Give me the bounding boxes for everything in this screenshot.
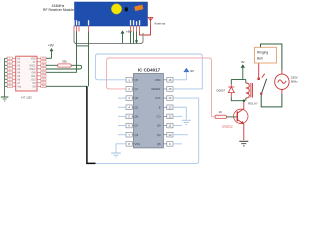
U2 pin numbers: [9, 58, 44, 88]
power +9V arrow (relay supply): [241, 60, 245, 80]
svg-text:15: 15: [168, 87, 172, 91]
RX1 pins (red stubs): [74, 26, 140, 32]
svg-text:10: 10: [168, 133, 172, 137]
wire bell top to AC source (dark green): [261, 44, 282, 70]
wire diode bottom to collector junction (green): [231, 97, 246, 101]
wire R1 to OSC2 loop (green): [46, 65, 82, 69]
svg-text:Q0: Q0: [135, 96, 139, 100]
U2 label HT 12D: [21, 95, 32, 99]
power +9V arrow (module rail): [121, 30, 133, 44]
svg-text:14: 14: [42, 72, 44, 74]
wire RX1 data pins tie (green): [77, 45, 89, 47]
wire R2 to base (green): [227, 116, 238, 118]
wire U1 Q5 to RESET loop (light blue): [95, 54, 202, 89]
svg-text:16: 16: [168, 78, 172, 82]
relay RL1 coil: [246, 83, 253, 98]
wire antenna to RX1 ANT pin (red): [140, 23, 151, 35]
counter U1 CD4017 title: [138, 68, 161, 73]
RL1 fixed contact stub (red): [262, 74, 265, 78]
U1 left pin boxes 1-8: [126, 78, 134, 147]
svg-text:9V: 9V: [241, 60, 245, 64]
svg-text:Q6: Q6: [135, 115, 139, 119]
svg-text:Q7: Q7: [135, 124, 139, 128]
svg-text:13: 13: [168, 105, 172, 109]
U1 body: [134, 74, 164, 148]
svg-text:VSS: VSS: [135, 142, 141, 146]
svg-text:3: 3: [9, 65, 10, 67]
U1 unconnected stubs (light blue): [118, 98, 188, 144]
svg-text:14: 14: [168, 96, 172, 100]
U2 pin name labels: [17, 57, 36, 88]
svg-text:4: 4: [9, 69, 10, 71]
svg-text:17: 17: [42, 62, 44, 64]
U1 pin name labels: [135, 78, 161, 146]
svg-text:18: 18: [42, 58, 44, 60]
svg-text:11: 11: [168, 124, 171, 128]
resistor R1 oscillator 33k: [46, 60, 71, 68]
wire U1 E pin to ground (light blue): [173, 107, 186, 120]
diode D1 1N4007 (flyback): [228, 84, 234, 97]
ground (U1 VSS): [111, 153, 121, 157]
svg-text:D11: D11: [32, 76, 37, 78]
wire RX1 right pins to rail (green): [131, 32, 137, 44]
svg-text:VDD: VDD: [155, 78, 161, 82]
decoder U2 HT12D body: [16, 56, 37, 91]
RX1 pin name silkscreen (white): [73, 20, 140, 25]
svg-text:1: 1: [9, 58, 10, 60]
svg-text:RESET: RESET: [152, 87, 161, 91]
U2 left pin boxes 1-9: [7, 57, 16, 88]
svg-text:Q8: Q8: [157, 142, 161, 146]
RL1 blade terminal dot: [260, 93, 262, 95]
wire U2 D8 out (green): [46, 85, 87, 87]
svg-text:10: 10: [42, 86, 44, 88]
antenna label: [154, 22, 165, 26]
RX1 label text: [43, 4, 74, 12]
svg-text:Antenna: Antenna: [154, 22, 165, 26]
svg-text:50Hz: 50Hz: [291, 79, 298, 83]
svg-text:7: 7: [9, 79, 10, 81]
wire D8 to CLK long run (black + blue): [87, 86, 199, 163]
power +9V arrow (U2 VDD): [48, 44, 55, 59]
RX1 coil (yellow): [111, 4, 121, 14]
bell LS1 Ringing Bell box: [255, 47, 277, 63]
svg-text:E: E: [159, 105, 161, 109]
svg-text:+9V: +9V: [126, 30, 133, 34]
svg-text:12: 12: [168, 115, 172, 119]
svg-text:Q5: Q5: [135, 78, 139, 82]
wire U1 VSS to ground (light blue): [116, 144, 126, 153]
svg-text:9: 9: [9, 86, 10, 88]
svg-text:OSC2: OSC2: [29, 69, 36, 71]
svg-text:RF Receiver Module: RF Receiver Module: [43, 8, 74, 12]
svg-text:OSC1: OSC1: [29, 65, 36, 67]
wire U1 VDD (light blue): [173, 79, 186, 81]
U1 right pin boxes 16-9: [163, 78, 173, 147]
Q1 label: [222, 125, 233, 129]
svg-text:16: 16: [42, 65, 44, 67]
svg-text:13: 13: [42, 76, 44, 78]
svg-text:6: 6: [9, 76, 10, 78]
wire RX1 DATA to HT12D DIN (green U): [46, 32, 89, 87]
junction dot collector: [243, 100, 245, 102]
wire U2 VDD to +9V (green): [46, 57, 52, 59]
ground (U1 E pin): [182, 120, 191, 124]
svg-text:Q1: Q1: [135, 87, 139, 91]
svg-text:12: 12: [42, 79, 44, 81]
svg-text:CLK: CLK: [155, 96, 160, 100]
RL1 switch blade: [261, 79, 266, 95]
ground (U2 address): [1, 97, 9, 101]
junction dot rail: [135, 40, 137, 42]
svg-text:8: 8: [9, 83, 10, 85]
svg-text:Bell: Bell: [257, 57, 263, 61]
RL1 label: [248, 102, 258, 106]
svg-text:Q4: Q4: [157, 133, 161, 137]
svg-text:2: 2: [9, 62, 10, 64]
svg-text:Q9: Q9: [157, 124, 161, 128]
wire blade to AC return (dark green): [261, 94, 282, 107]
RL1 contact pole lead (red): [258, 63, 260, 78]
svg-text:DIN: DIN: [32, 72, 36, 74]
svg-text:5: 5: [9, 72, 10, 74]
svg-text:VDD: VDD: [31, 58, 36, 60]
svg-text:33k: 33k: [62, 60, 67, 64]
ground (Q1 emitter): [239, 141, 248, 146]
power +9V arrow (U1 VDD): [183, 68, 194, 80]
antenna AE1: [148, 17, 153, 23]
svg-text:Q2: Q2: [135, 105, 139, 109]
wire U2 address pins ground rail (green): [5, 58, 8, 97]
svg-text:HT 12D: HT 12D: [21, 95, 32, 99]
svg-text:+9V: +9V: [48, 44, 55, 48]
RF receiver module RX1: [75, 2, 148, 26]
U2 right pin boxes 18-10: [37, 57, 46, 88]
svg-text:Q3: Q3: [135, 133, 139, 137]
svg-text:D0607: D0607: [217, 88, 226, 92]
resistor R2 base 1K: [212, 110, 227, 118]
svg-text:IC CD4017: IC CD4017: [138, 68, 161, 73]
wire relay/diode top (green): [231, 80, 246, 85]
wire U1 Q1 to transistor (pink): [107, 58, 212, 117]
svg-text:15: 15: [42, 69, 44, 71]
svg-text:RELAY: RELAY: [248, 102, 258, 106]
wire ground/vcc rail under module (grey): [74, 32, 143, 44]
svg-text:1K: 1K: [219, 110, 223, 114]
RL1 contact dot: [258, 78, 260, 80]
transistor Q1 2N2222: [234, 101, 248, 140]
svg-text:Ringing: Ringing: [257, 51, 268, 55]
svg-text:2N2222: 2N2222: [222, 125, 233, 129]
svg-text:11: 11: [42, 83, 44, 85]
svg-text:CO: CO: [156, 115, 160, 119]
D1 label: [217, 88, 226, 92]
AC source V1 230V 50Hz: [275, 70, 299, 93]
RX1 trimmer (orange): [134, 5, 143, 11]
svg-text:9V: 9V: [190, 69, 194, 73]
RX1 IC (black): [125, 7, 128, 11]
svg-text:D10: D10: [31, 79, 36, 81]
